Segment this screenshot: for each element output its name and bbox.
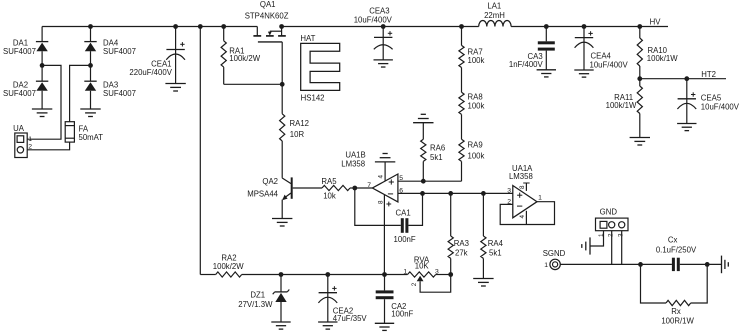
- svg-text:100nF: 100nF: [391, 310, 413, 319]
- svg-text:27k: 27k: [455, 248, 468, 257]
- svg-text:QA1: QA1: [260, 0, 276, 9]
- wire fuse bottom to UA pin2: [27, 142, 69, 150]
- node CA2 junction: [382, 272, 387, 277]
- svg-text:Rx: Rx: [671, 307, 681, 316]
- svg-text:8: 8: [519, 185, 526, 189]
- svg-text:100R/1W: 100R/1W: [661, 317, 694, 326]
- wire UA1B pin8 down to low rail: [383, 195, 385, 275]
- svg-text:Cx: Cx: [668, 235, 678, 244]
- capacitor Cx 0.1uF/250V: [656, 235, 697, 271]
- wire CA1 to pin6 node: [408, 193, 422, 225]
- svg-text:RA6: RA6: [430, 144, 445, 153]
- svg-text:CEA5: CEA5: [701, 93, 722, 102]
- node CEA3 bus: [381, 24, 386, 29]
- wire GND pin1 to earth: [590, 231, 604, 246]
- wire low rail with RA2: [200, 274, 215, 276]
- resistor RA8 100k: [459, 68, 485, 115]
- resistor RA9 100k: [459, 114, 485, 181]
- diode DA1 SUF4007: [3, 27, 48, 66]
- svg-text:1: 1: [538, 194, 542, 201]
- svg-text:CEA4: CEA4: [591, 52, 612, 61]
- svg-text:SGND: SGND: [543, 249, 566, 258]
- ground under DA3: [80, 108, 100, 110]
- wire SGND to Cx: [560, 263, 672, 265]
- svg-text:LA1: LA1: [487, 2, 501, 11]
- wire UA1A bottom power pin: [525, 211, 527, 225]
- node CEA4 bus: [582, 24, 587, 29]
- wire riser from bus to RA2: [199, 27, 201, 275]
- connector SGND: [543, 249, 566, 270]
- heatsink HAT HS142: [300, 34, 339, 103]
- svg-text:10k: 10k: [323, 192, 336, 201]
- svg-text:4: 4: [519, 215, 526, 219]
- svg-text:CA1: CA1: [396, 208, 411, 217]
- wire AC input to UA pin1: [27, 65, 61, 139]
- svg-text:GND: GND: [600, 207, 618, 216]
- svg-text:LM358: LM358: [509, 172, 533, 181]
- svg-text:100k: 100k: [468, 152, 485, 161]
- wire GND pin2 down: [611, 231, 613, 265]
- zener diode DZ1 27V/1.3W: [238, 275, 289, 323]
- earth symbol right: [721, 256, 723, 274]
- node RA10 bus junction: [637, 24, 642, 29]
- wire pin5 line: [398, 180, 462, 182]
- svg-text:3: 3: [507, 187, 511, 194]
- svg-text:QA2: QA2: [262, 177, 278, 186]
- node Cx left junction: [638, 262, 643, 267]
- capacitor CA2 100nF: [376, 275, 414, 324]
- svg-text:1nF/400V: 1nF/400V: [509, 60, 544, 69]
- svg-text:RA3: RA3: [454, 239, 469, 248]
- resistor RA12 10R: [280, 84, 309, 177]
- svg-text:SUF4007: SUF4007: [103, 47, 136, 56]
- connector GND: [596, 207, 629, 237]
- node CA3 bus: [544, 24, 549, 29]
- ground under CA2: [375, 322, 394, 324]
- svg-text:HT2: HT2: [701, 70, 716, 79]
- node RA7 bus: [459, 24, 464, 29]
- svg-text:100k: 100k: [468, 56, 485, 65]
- ground under DA2: [32, 108, 52, 110]
- node UA1B output: [352, 186, 357, 191]
- resistor RA5 10k: [321, 177, 354, 201]
- svg-text:RA8: RA8: [468, 93, 483, 102]
- wire UA1A output feedback loop: [500, 202, 554, 225]
- wire top HV bus right segment with node dots: [282, 26, 479, 28]
- diode DA4 SUF4007: [84, 27, 136, 66]
- node RA1 bus: [221, 24, 226, 29]
- svg-text:SUF4007: SUF4007: [103, 89, 136, 98]
- svg-text:10R: 10R: [290, 130, 305, 139]
- wire Rx loop: [641, 264, 667, 303]
- node RA6 junction on pin5 line: [421, 179, 426, 184]
- node CEA2 junction: [325, 272, 330, 277]
- svg-text:220uF/400V: 220uF/400V: [129, 68, 172, 77]
- svg-text:47uF/35V: 47uF/35V: [333, 314, 368, 323]
- resistor RA4 5k1: [481, 193, 504, 278]
- svg-text:3: 3: [435, 268, 439, 275]
- svg-text:SUF4007: SUF4007: [3, 47, 36, 56]
- wire UA1A top power pin: [525, 183, 527, 191]
- node QA1 source on bus: [279, 24, 284, 29]
- node CEA1 bus: [173, 24, 178, 29]
- ground under CEA1: [165, 83, 185, 85]
- svg-text:0.1uF/250V: 0.1uF/250V: [656, 246, 697, 255]
- svg-text:50mAT: 50mAT: [79, 133, 104, 142]
- svg-text:5k1: 5k1: [489, 249, 502, 258]
- node gate junction: [280, 82, 285, 87]
- svg-text:8: 8: [377, 200, 384, 204]
- svg-text:100k/2W: 100k/2W: [213, 262, 244, 271]
- node RA4 top junction: [481, 191, 486, 196]
- fuse FA 50mAT: [65, 122, 103, 142]
- resistor RA10 100k/1W: [637, 27, 678, 79]
- wire low rail RA2 to RVA: [242, 274, 408, 276]
- transistor QA1 STP4NK60Z (MOSFET): [245, 0, 289, 42]
- diode DA2 SUF4007: [3, 65, 48, 109]
- svg-text:100k: 100k: [468, 101, 485, 110]
- diode DA3 SUF4007: [84, 65, 136, 109]
- capacitor CEA5 10uF/400V: [677, 79, 739, 124]
- svg-text:DZ1: DZ1: [250, 290, 265, 299]
- svg-text:27V/1.3W: 27V/1.3W: [238, 300, 273, 309]
- power rail symbol above UA1B: [375, 161, 395, 163]
- node Cx right junction: [705, 262, 710, 267]
- svg-text:22mH: 22mH: [484, 11, 505, 20]
- svg-text:CEA3: CEA3: [369, 7, 389, 16]
- svg-text:HAT: HAT: [300, 34, 315, 43]
- node RA2 riser bus: [198, 24, 203, 29]
- wire pin6 line to UA1A pin3: [398, 192, 513, 194]
- ground under CA3: [537, 69, 556, 71]
- capacitor CA1 100nF: [394, 208, 416, 244]
- resistor RA1 100k/2W: [221, 27, 261, 85]
- wire AC input from DA4/DA3 junction to fuse: [70, 65, 91, 121]
- svg-text:HS142: HS142: [301, 94, 325, 103]
- ground under RA11: [630, 137, 650, 139]
- svg-text:SUF4007: SUF4007: [3, 89, 36, 98]
- node DA4 top of bus: [88, 24, 93, 29]
- svg-text:5k1: 5k1: [430, 153, 443, 162]
- resistor RA2 100k/2W: [213, 254, 244, 278]
- node CEA5 junction: [684, 76, 689, 81]
- ground under CEA4: [574, 69, 593, 71]
- node DA4-DA3 junction: [88, 63, 93, 68]
- svg-text:10uF/400V: 10uF/400V: [354, 16, 393, 25]
- inductor LA1 22mH: [479, 2, 511, 27]
- ground under QA2 emitter: [272, 218, 292, 220]
- svg-text:UA: UA: [13, 124, 25, 133]
- capacitor CEA1 220uF/400V: [129, 27, 185, 84]
- resistor Rx 100R/1W: [661, 300, 694, 325]
- node RVA wiper RA3 junction: [448, 272, 453, 277]
- capacitor CEA3 10uF/400V: [354, 7, 393, 60]
- svg-text:RA5: RA5: [321, 177, 337, 186]
- node CA1 feedback junction: [420, 191, 425, 196]
- resistor RA3 27k: [448, 193, 469, 274]
- svg-text:10uF/400V: 10uF/400V: [590, 61, 629, 70]
- capacitor CEA2 47uF/35V: [318, 275, 367, 324]
- wire QA2 base to RA5: [293, 187, 322, 189]
- wire Cx to earth right: [680, 263, 722, 265]
- wire feedback from output to CA1: [355, 188, 401, 225]
- wire UA1B output to RA5 node: [355, 187, 373, 189]
- node RA3 top junction: [448, 191, 453, 196]
- svg-text:RA9: RA9: [468, 141, 483, 150]
- potentiometer RVA 10K: [403, 255, 450, 292]
- wire HT2 line: [640, 78, 726, 80]
- power rail symbol above RA6: [413, 122, 433, 124]
- svg-text:100k/1W: 100k/1W: [606, 101, 637, 110]
- ground under DZ1: [271, 321, 290, 323]
- svg-text:1: 1: [403, 268, 407, 275]
- svg-text:2: 2: [411, 282, 418, 286]
- svg-text:RA4: RA4: [488, 239, 504, 248]
- svg-text:RA12: RA12: [290, 119, 310, 128]
- svg-text:10K: 10K: [415, 261, 430, 270]
- capacitor CA3 1nF/400V: [509, 27, 555, 70]
- svg-text:MPSA44: MPSA44: [247, 189, 278, 198]
- svg-text:4: 4: [378, 175, 385, 179]
- svg-text:1: 1: [28, 136, 32, 143]
- resistor RA11 100k/1W: [606, 79, 643, 138]
- svg-text:10uF/400V: 10uF/400V: [701, 103, 740, 112]
- svg-text:100k/2W: 100k/2W: [229, 54, 260, 63]
- ground under CEA5: [677, 123, 696, 125]
- svg-text:HV: HV: [650, 17, 662, 26]
- svg-text:3: 3: [618, 233, 625, 237]
- ground under CEA2: [318, 321, 337, 323]
- wire QA1 gate down to node: [281, 42, 283, 84]
- ground under CEA3: [374, 59, 393, 61]
- op-amp UA1B LM358: [341, 151, 403, 207]
- node DZ1 junction: [279, 272, 284, 277]
- node HT2 left junction: [637, 76, 642, 81]
- svg-text:LM358: LM358: [341, 159, 365, 168]
- wire UA1B pin4 to rail symbol: [384, 162, 386, 181]
- capacitor CEA4 10uF/400V: [575, 27, 629, 71]
- svg-text:STP4NK60Z: STP4NK60Z: [245, 12, 289, 21]
- wire RA1 bottom to gate node: [224, 83, 283, 85]
- ground under RA4: [473, 278, 493, 280]
- svg-text:2: 2: [608, 233, 615, 237]
- svg-text:100nF: 100nF: [394, 235, 416, 244]
- resistor RA6 5k1: [421, 123, 445, 182]
- wire top HV bus left segment: [42, 26, 257, 28]
- earth symbol left of GND connector: [589, 237, 591, 254]
- op-amp UA1A LM358: [507, 164, 542, 219]
- wire GND pin3 down: [621, 231, 623, 265]
- transistor QA2 MPSA44: [247, 177, 292, 218]
- node DA1-DA2 junction: [40, 63, 45, 68]
- resistor RA7 100k: [459, 27, 485, 68]
- svg-text:2: 2: [28, 144, 32, 151]
- svg-text:100k/1W: 100k/1W: [647, 54, 678, 63]
- svg-text:1: 1: [544, 262, 548, 269]
- connector UA: [13, 124, 32, 158]
